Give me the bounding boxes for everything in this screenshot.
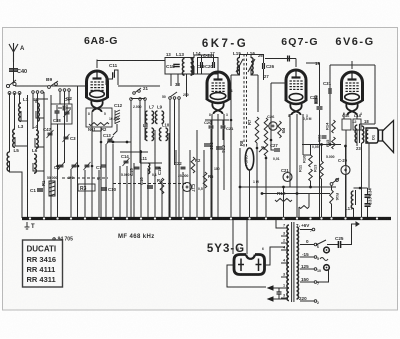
coil L7 (145, 111, 147, 124)
wire comb to bus (70, 170, 72, 218)
ground bus (22, 217, 391, 220)
wire seg a (107, 141, 131, 143)
wire seg f (205, 119, 229, 121)
capacitor C31 (329, 88, 331, 94)
capacitor C21b (221, 126, 226, 128)
resistor R14 (332, 120, 336, 133)
wire seg b (120, 151, 148, 153)
coil L2 (37, 103, 39, 121)
wire y86 segment (118, 85, 160, 87)
wire 150 to terminal (317, 270, 329, 282)
coil L8 (145, 128, 147, 141)
junction dots (77, 165, 80, 168)
capacitor C21 electrolytic (283, 173, 292, 182)
capacitor C40 (9, 69, 18, 71)
wire col e (64, 91, 66, 163)
antenna A (9, 43, 18, 62)
resistor R16 (330, 190, 334, 204)
wire seg g (303, 154, 311, 156)
wire 5Y3 anode feeds (232, 220, 234, 254)
switch contacts row c (59, 89, 62, 92)
wire mid right verticals (321, 179, 323, 218)
wire speaker down (368, 143, 370, 190)
capacitor C17 electrolytic (183, 183, 192, 192)
box L18 (342, 119, 351, 130)
capacitor C22 (181, 167, 186, 169)
heater arrow 1 (268, 287, 281, 289)
coil L14 (192, 58, 194, 75)
coil L5 (7, 152, 9, 171)
trimmer C13 (108, 139, 113, 141)
dashed shield line (62, 177, 108, 179)
tube 6K7-G (207, 72, 230, 114)
wire sw drops (32, 93, 34, 129)
heater arrow 2 (268, 298, 288, 300)
resistor R15 (332, 137, 336, 149)
wire ift2 top (240, 55, 252, 59)
capacitor C20b (209, 126, 214, 128)
DUCATI model box (23, 240, 63, 287)
wire 6A8 top cap (96, 60, 98, 69)
wire heater bottom (266, 287, 281, 289)
wire 6Q7 left dot (285, 82, 288, 85)
coil L10 (159, 128, 161, 141)
oscillator box (165, 58, 193, 75)
trimmer C14 (124, 161, 129, 163)
wire L2 bottom (36, 111, 44, 118)
wire ift2 bottoms (231, 66, 240, 75)
wire xfmr (360, 123, 376, 125)
tube 5Y3-G (234, 255, 265, 275)
trimmer C5 (72, 165, 77, 167)
AC squiggle (320, 258, 328, 261)
contacts mid (130, 98, 133, 101)
wire L5 drop (9, 93, 11, 152)
capacitor C19 (156, 167, 161, 169)
tube 6A8-G (86, 71, 108, 112)
coil L13 (182, 59, 184, 76)
coil L15 (237, 58, 239, 75)
mains terminal 2 (324, 265, 330, 271)
wire audio area (240, 186, 336, 188)
switch contacts row b (32, 91, 35, 94)
capacitor C23 (204, 144, 210, 146)
wire L1 bottom (21, 111, 28, 121)
wire L1 top (19, 93, 21, 103)
tube 6Q7-G (286, 70, 307, 115)
wire osc down (170, 74, 172, 87)
capacitor C28b (288, 56, 290, 62)
trimmer C9 (65, 112, 70, 114)
capacitor C16 (147, 186, 153, 188)
capacitor C1 (37, 189, 43, 191)
resistor R13 (320, 161, 324, 179)
band switch S1 (6, 84, 9, 87)
coil L3 (13, 129, 15, 147)
coil L9 (155, 111, 157, 124)
wire L6 bottom (33, 163, 44, 171)
wire L5 bottom (10, 161, 23, 218)
wire col d (57, 124, 59, 218)
coil L16 (251, 58, 253, 75)
wire L4 bottom (35, 138, 44, 147)
oscillator box R2 (86, 108, 112, 127)
wire L3 bottom (15, 137, 28, 146)
IFT1 box (198, 58, 219, 75)
wire left col b (43, 92, 45, 218)
wire seg e (131, 98, 145, 100)
antenna lead wire (dashed) (13, 62, 15, 84)
wire main grid line (15, 85, 88, 87)
capacitor C38a (55, 111, 60, 113)
wire L3 drop (14, 93, 16, 129)
resistor R3 (78, 184, 95, 191)
trimmer C4 (59, 165, 64, 167)
wire 5Y3 left (227, 265, 266, 287)
capacitor heater (277, 292, 282, 294)
coil L11 (148, 163, 150, 174)
wire left col a (27, 95, 29, 218)
resistor R1 (49, 181, 55, 196)
power transformer primary winding (297, 227, 299, 299)
capacitor C10 (101, 188, 107, 190)
wire 6V6 top (351, 61, 353, 69)
wire 6Q7 right (296, 58, 302, 60)
pot element R8 (264, 118, 268, 156)
mains switch on pot (330, 183, 333, 186)
capacitor C28 (315, 98, 317, 104)
wire L2 frame (36, 99, 48, 103)
resistor R4 (160, 178, 164, 194)
mains terminal 1 (324, 247, 330, 253)
capacitor C20 (213, 62, 215, 68)
trimmer C47 (48, 133, 53, 135)
volume pot FONO (245, 148, 253, 170)
speaker field coil (366, 128, 378, 143)
capacitor C2 (63, 106, 65, 111)
wire 6A8 bottom drops (91, 112, 93, 218)
power transformer core (291, 222, 293, 302)
wire 6Q7 top cap (295, 59, 297, 68)
wire col c (50, 95, 52, 218)
wire top of selector (276, 223, 352, 225)
wire 6K7 top cap (217, 60, 219, 69)
power transformer secondary winding (287, 225, 289, 301)
capacitor C25 (263, 63, 265, 69)
trimmer C3 (64, 137, 69, 139)
choke L17 (351, 191, 353, 209)
wire mid drops (130, 100, 132, 218)
bus junction beads (29, 217, 31, 219)
selector arm (317, 240, 326, 245)
wire 6K7 drops (211, 114, 213, 218)
coil L4 (36, 130, 38, 148)
transformer left taps (281, 227, 288, 229)
resistor R7 (255, 117, 259, 143)
wire det area (230, 75, 232, 218)
capacitor C33 (365, 204, 371, 206)
wire 5Y3 right (265, 247, 286, 265)
capacitor C24 (216, 147, 222, 149)
resistor R11 (309, 169, 313, 181)
resistor R9 (278, 121, 282, 138)
trimmer C6 (85, 165, 90, 167)
IFT2 core (dashed) (243, 54, 245, 148)
speaker (379, 130, 383, 141)
wire top bus (97, 60, 165, 62)
capacitor C19b (201, 62, 203, 68)
chassis tap +T (25, 222, 30, 229)
wire col f (77, 86, 79, 218)
wire 6V6 bottom (343, 113, 345, 119)
capacitor C15 (135, 167, 140, 169)
resistor R2b (191, 157, 195, 173)
output transformer L19 (355, 125, 357, 143)
wire ift1 (194, 55, 214, 62)
capacitor C32 (322, 136, 327, 138)
shield box C38 (51, 104, 72, 124)
wire hv top (276, 220, 281, 228)
coil L1 (19, 103, 21, 121)
wire antenna to switch (13, 72, 15, 83)
terminal row left (8, 92, 11, 95)
coil L6 (34, 154, 36, 173)
capacitor C26e electrolytic (269, 122, 277, 130)
wire seg c (140, 162, 162, 164)
resistor R5 (203, 172, 207, 188)
wire 6Q7 drops (289, 114, 291, 187)
capacitor C27 (274, 149, 280, 151)
capacitor C34 (365, 195, 371, 197)
resistor R10 (309, 155, 313, 167)
wire seg d (92, 130, 101, 132)
tube 6V6-G (341, 72, 363, 115)
resistor R17 (299, 206, 309, 209)
wire grid to tube (78, 85, 89, 87)
